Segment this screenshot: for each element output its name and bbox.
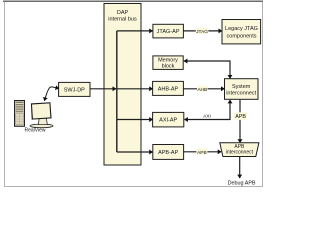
- svg-text:components: components: [227, 34, 257, 40]
- wire bus to APB-AP: [117, 151, 153, 153]
- block Legacy JTAG components: [222, 20, 261, 44]
- wire RealView to SWJ-DP (curved, arrows both ends): [44, 87, 59, 101]
- frame border bottom: [4, 186, 263, 187]
- block AHB-AP: [153, 81, 184, 95]
- block DAP internal bus: [104, 4, 141, 166]
- wire AXI-AP to System interconnect (vertical, arrow up): [229, 100, 231, 120]
- svg-text:APB: APB: [235, 114, 246, 120]
- svg-text:Debug APB: Debug APB: [228, 180, 256, 186]
- svg-text:interconnect: interconnect: [226, 90, 256, 96]
- icon computer tower: [15, 101, 25, 127]
- block Memory block: [153, 56, 183, 70]
- frame border left: [4, 2, 5, 186]
- block APB-AP: [153, 145, 184, 160]
- block System interconnect: [225, 79, 259, 100]
- icon monitor: [30, 102, 53, 128]
- svg-text:APB: APB: [197, 150, 207, 156]
- wire System interconnect to APB interconnect, label APB: [234, 100, 247, 143]
- wire bus to JTAG-AP: [117, 30, 153, 32]
- block JTAG-AP: [153, 24, 184, 38]
- wire SWJ-DP to bus: [90, 88, 116, 90]
- wire APB interconnect to Debug APB: [239, 157, 241, 179]
- svg-text:AHB-AP: AHB-AP: [158, 87, 179, 93]
- wire JTAG-AP to Legacy JTAG, label JTAG: [183, 28, 222, 35]
- svg-text:block: block: [162, 64, 175, 70]
- wire bus to AXI-AP: [117, 119, 153, 121]
- block AXI-AP: [153, 112, 184, 127]
- frame border top: [3, 1, 263, 2]
- svg-text:JTAG-AP: JTAG-AP: [157, 29, 180, 35]
- svg-text:APB-AP: APB-AP: [158, 150, 179, 156]
- block APB interconnect (trapezoid): [220, 143, 259, 157]
- wire APB-AP to APB interconnect, label APB: [184, 149, 222, 156]
- svg-text:JTAG: JTAG: [196, 29, 208, 35]
- wire System interconnect to Memory block (horizontal, arrow left): [184, 60, 230, 62]
- wire DAP bus vertical: [116, 31, 118, 152]
- wire System interconnect to Memory block (vertical, arrow down): [229, 61, 231, 79]
- svg-text:Memory: Memory: [158, 57, 178, 63]
- svg-text:interconnect: interconnect: [226, 150, 254, 156]
- svg-text:AXI-AP: AXI-AP: [159, 118, 177, 124]
- svg-text:SWJ-DP: SWJ-DP: [64, 88, 85, 94]
- block SWJ-DP: [59, 82, 90, 96]
- wire AHB-AP to System interconnect, label AHB: [183, 86, 224, 93]
- wire AXI-AP to System interconnect (horizontal, arrow left): [184, 119, 230, 121]
- frame border right: [262, 2, 263, 186]
- svg-text:AXI: AXI: [203, 113, 211, 119]
- svg-text:System: System: [232, 84, 251, 90]
- svg-text:DAP: DAP: [117, 10, 129, 16]
- svg-text:Legacy JTAG: Legacy JTAG: [225, 26, 258, 32]
- wire bus to AHB-AP: [118, 88, 153, 90]
- svg-text:RealView: RealView: [24, 128, 45, 134]
- svg-text:internal bus: internal bus: [108, 16, 137, 22]
- svg-text:AHB: AHB: [197, 87, 207, 93]
